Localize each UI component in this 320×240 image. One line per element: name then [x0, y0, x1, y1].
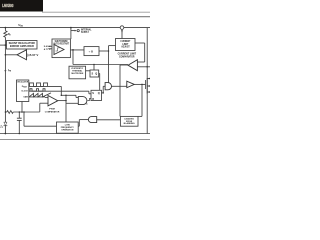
svg-text:LNK500: LNK500 [2, 3, 14, 8]
svg-text:ADJUST: ADJUST [121, 46, 130, 49]
svg-text:S: S [92, 91, 94, 95]
svg-text:Q: Q [98, 91, 100, 95]
svg-text:AUTO-RESTART: AUTO-RESTART [53, 42, 70, 45]
svg-text:COMPARATOR: COMPARATOR [45, 110, 60, 113]
svg-text:OPERATION: OPERATION [61, 129, 73, 132]
svg-text:SUPPLY: SUPPLY [81, 32, 89, 34]
svg-text:ERROR AMPLIFIER: ERROR AMPLIFIER [10, 45, 34, 48]
svg-text:R: R [92, 97, 94, 101]
svg-text:BLANKING: BLANKING [124, 122, 135, 125]
svg-text:4.77 V: 4.77 V [44, 48, 51, 51]
svg-text:OSCILLATOR: OSCILLATOR [17, 81, 28, 84]
svg-text:SHUTDOWN: SHUTDOWN [71, 73, 84, 75]
svg-text:Q: Q [95, 73, 97, 76]
svg-text:÷ 8: ÷ 8 [89, 49, 93, 53]
svg-text:COMPARATOR: COMPARATOR [119, 55, 135, 58]
svg-text:5.67 V: 5.67 V [30, 55, 39, 57]
svg-text:INTERNAL: INTERNAL [81, 28, 92, 31]
svg-text:CLOCK: CLOCK [21, 91, 28, 93]
svg-text:5.63 V: 5.63 V [44, 46, 51, 48]
